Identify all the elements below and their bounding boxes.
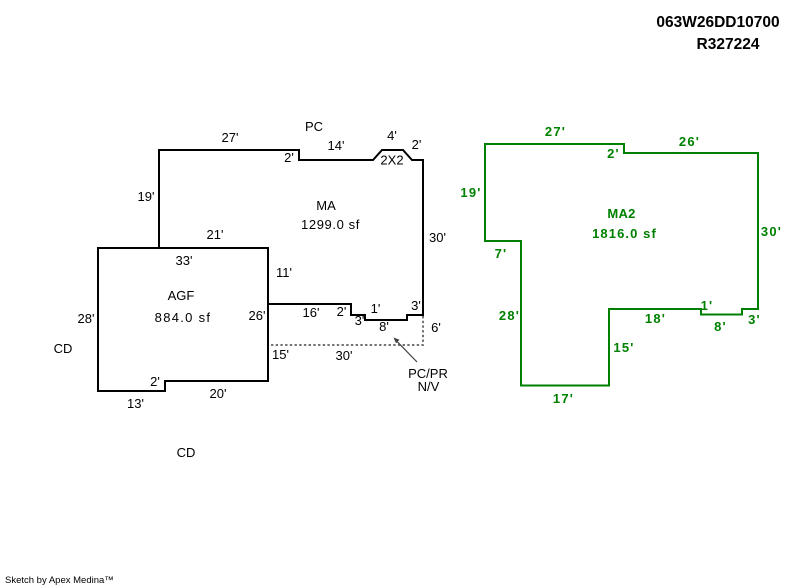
svg-text:N/V: N/V — [418, 379, 440, 394]
porch dotted outline — [270, 316, 423, 345]
svg-text:15': 15' — [272, 347, 289, 362]
svg-text:8': 8' — [714, 319, 727, 334]
svg-text:30': 30' — [761, 224, 782, 239]
svg-text:27': 27' — [545, 124, 566, 139]
svg-text:CD: CD — [54, 341, 73, 356]
svg-text:2': 2' — [284, 150, 294, 165]
svg-text:11': 11' — [276, 265, 292, 280]
area MA outline — [159, 150, 423, 320]
svg-text:28': 28' — [78, 311, 95, 326]
svg-text:14': 14' — [328, 138, 345, 153]
svg-text:R327224: R327224 — [697, 36, 760, 53]
svg-text:CD: CD — [177, 445, 196, 460]
svg-text:19': 19' — [138, 189, 155, 204]
svg-text:20': 20' — [210, 386, 227, 401]
svg-text:30': 30' — [336, 348, 353, 363]
svg-text:3': 3' — [411, 298, 421, 313]
svg-text:21': 21' — [207, 227, 224, 242]
svg-text:1': 1' — [701, 298, 714, 313]
svg-text:15': 15' — [613, 340, 634, 355]
svg-text:19': 19' — [460, 185, 481, 200]
svg-text:1': 1' — [371, 301, 381, 316]
svg-text:063W26DD10700: 063W26DD10700 — [656, 14, 779, 31]
svg-text:16': 16' — [303, 305, 320, 320]
svg-text:884.0 sf: 884.0 sf — [155, 310, 212, 325]
svg-text:27': 27' — [222, 130, 239, 145]
svg-text:8': 8' — [379, 319, 389, 334]
area AGF outline — [98, 248, 268, 391]
svg-text:17': 17' — [553, 391, 574, 406]
svg-text:AGF: AGF — [168, 288, 195, 303]
svg-text:6': 6' — [431, 320, 441, 335]
svg-text:1299.0 sf: 1299.0 sf — [301, 217, 360, 232]
svg-text:7': 7' — [495, 246, 508, 261]
svg-text:Sketch by Apex Medina™: Sketch by Apex Medina™ — [5, 575, 114, 586]
svg-text:3': 3' — [355, 313, 365, 328]
svg-text:2': 2' — [412, 137, 422, 152]
svg-text:28': 28' — [499, 308, 520, 323]
svg-text:18': 18' — [645, 311, 666, 326]
svg-text:2X2: 2X2 — [380, 153, 403, 168]
svg-text:MA: MA — [316, 198, 336, 213]
svg-text:4': 4' — [387, 128, 397, 143]
svg-text:30': 30' — [429, 230, 446, 245]
svg-text:13': 13' — [127, 396, 144, 411]
svg-text:26': 26' — [679, 134, 700, 149]
svg-text:1816.0 sf: 1816.0 sf — [592, 226, 657, 241]
svg-text:PC: PC — [305, 119, 323, 134]
callout arrow to porch — [394, 338, 418, 363]
area MA2 outline (green) — [485, 144, 758, 386]
svg-text:2': 2' — [337, 304, 347, 319]
svg-text:MA2: MA2 — [607, 206, 635, 221]
svg-text:3': 3' — [748, 312, 761, 327]
svg-text:2': 2' — [607, 146, 620, 161]
svg-text:2': 2' — [150, 374, 160, 389]
svg-text:33': 33' — [176, 253, 193, 268]
svg-text:26': 26' — [249, 308, 266, 323]
